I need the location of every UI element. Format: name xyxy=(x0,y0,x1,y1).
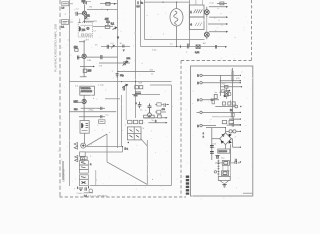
node driver box hatched 1 xyxy=(189,5,204,17)
transistor Q7 xyxy=(224,92,228,96)
node small box row a xyxy=(223,102,226,105)
svg-text:5n: 5n xyxy=(141,2,144,4)
wire switch grid inner horizontal xyxy=(127,132,141,134)
resistor R6 left of Q2 xyxy=(75,49,78,52)
node dot lead1 xyxy=(79,22,80,23)
node junction x220.3 y80.7 xyxy=(220,80,221,81)
head assembly box xyxy=(78,23,92,37)
svg-text:B: B xyxy=(197,100,199,102)
svg-text:+: + xyxy=(135,102,137,105)
node arrow y125.1 xyxy=(240,124,241,125)
svg-text:175: 175 xyxy=(99,65,103,67)
SWITCH COLUMN lower left xyxy=(79,157,94,198)
svg-text:1: 1 xyxy=(125,125,127,127)
svg-text:2: 2 xyxy=(186,52,188,54)
capacitor C23 polar pair xyxy=(210,146,214,148)
svg-text:a: a xyxy=(109,132,111,134)
wire vertical joining y146.6 and y152 xyxy=(122,147,124,152)
wire y111.7 xyxy=(69,111,116,113)
node tiny box row b xyxy=(85,34,87,36)
node junction y71.4 xyxy=(117,71,118,72)
node cluster dot xyxy=(167,104,168,105)
svg-text:470: 470 xyxy=(162,109,166,111)
wire Q1 base lead xyxy=(78,13,83,15)
wire box A leads xyxy=(215,162,234,164)
wire y24 xyxy=(208,23,226,25)
svg-text:100: 100 xyxy=(88,71,93,73)
svg-text:d: d xyxy=(152,179,153,181)
node arrow plug on bus x118 xyxy=(117,37,119,40)
svg-text:b: b xyxy=(93,98,95,100)
node arrow end y46.8 xyxy=(225,46,227,48)
wire y86.8 xyxy=(220,86,241,88)
wire right riser xyxy=(230,156,232,177)
svg-text:2,2: 2,2 xyxy=(137,6,141,8)
resistor R9 xyxy=(139,86,143,89)
resistor R14 xyxy=(157,103,161,106)
LEFT COMPONENT COLUMN x105-118 xyxy=(105,3,119,40)
node arrow y147.2 xyxy=(240,147,241,148)
node arrow y119.1 xyxy=(240,118,241,119)
node hatch lines 4 xyxy=(195,23,202,26)
node arrow end y122.7 xyxy=(166,122,168,124)
wire bus x135.5 xyxy=(135,0,137,118)
node arrow y17.1 xyxy=(226,16,228,18)
node tiny box row c xyxy=(89,34,91,36)
svg-text:1M: 1M xyxy=(82,1,85,3)
node Q5 marks xyxy=(205,11,208,14)
wire dashed border right panel left vertical xyxy=(180,61,182,197)
node marks near x187 y44-48 xyxy=(187,44,189,49)
svg-text:2k: 2k xyxy=(140,109,143,111)
svg-text:500: 500 xyxy=(85,19,89,21)
node bottom cluster extra marks xyxy=(78,186,89,189)
wire y80.7 xyxy=(220,80,240,82)
node J1 plug arrows xyxy=(74,143,77,150)
right panel solid border rectangle xyxy=(191,66,253,196)
wire top small line y3.4 xyxy=(217,2,227,4)
svg-text:25µ: 25µ xyxy=(120,75,124,77)
STAGE 1 (top transistor amp) xyxy=(76,0,94,37)
wire Q6 bottom lead xyxy=(206,37,208,39)
wire stage3 collector xyxy=(83,95,85,99)
svg-text:A 9: A 9 xyxy=(86,38,90,41)
node fuse circle 1 xyxy=(229,130,232,133)
wire bridge top lead xyxy=(225,128,227,134)
RECORD HEAD BOX 2 xyxy=(80,121,89,144)
node junction dot y81.7 xyxy=(121,81,122,82)
svg-text:B30C300: B30C300 xyxy=(219,151,228,153)
resistor R15 xyxy=(157,110,161,114)
node marks bottom right xyxy=(235,159,236,162)
svg-text:WIEDERG.: WIEDERG. xyxy=(81,88,92,90)
resistor R4 on y2 xyxy=(106,3,110,6)
node bottom marks xyxy=(84,192,93,194)
wire horizontal y46.8 long xyxy=(141,46,226,48)
wire horizontal y85.1 xyxy=(150,84,172,86)
STAGE 2 (second transistor amp) xyxy=(74,40,118,77)
node volume pot cluster xyxy=(122,84,128,87)
wire Q1 collector xyxy=(84,4,86,11)
node switch grid 2x2 xyxy=(127,127,141,140)
wire horizontal y2 left xyxy=(100,3,118,5)
svg-text:0,22: 0,22 xyxy=(195,52,200,54)
wire main panel left dashed border xyxy=(59,0,61,197)
capacitor C20 xyxy=(211,99,214,100)
resistor R20 vertical on row1 xyxy=(232,72,234,81)
wire bus x121.5 lower xyxy=(121,95,123,147)
wire vertical x147 xyxy=(146,140,148,185)
svg-text:2SB: 2SB xyxy=(87,60,92,62)
capacitor C3 base Q2 xyxy=(78,56,79,60)
node cluster above bridge xyxy=(222,121,226,124)
transistor Q5 xyxy=(204,10,209,15)
wire Q1 emitter down xyxy=(83,15,94,22)
switch bank box3 xyxy=(79,169,88,173)
connector P4 xyxy=(200,111,202,113)
MID COLUMN components xyxy=(99,45,168,151)
resistor R10 xyxy=(133,120,137,123)
wire y116.8 xyxy=(79,116,105,118)
node arrow y31.7 xyxy=(226,31,228,33)
capacitor C5 xyxy=(101,107,102,110)
node arrow y80.7 xyxy=(240,80,241,81)
connector P5 xyxy=(200,124,202,126)
svg-text:10µ: 10µ xyxy=(100,85,104,87)
node pot circle on y106.5 xyxy=(235,105,238,108)
wire main panel bottom dashed border xyxy=(60,196,187,198)
node left ladder ticks xyxy=(218,161,220,174)
svg-text:B: B xyxy=(197,76,199,78)
node box B inner dark xyxy=(223,172,227,175)
svg-text:a: a xyxy=(218,8,220,10)
wire A-B links xyxy=(223,165,228,171)
node junction dot y2 xyxy=(107,9,108,10)
wire collector top xyxy=(79,40,85,54)
node J2 plug arrows xyxy=(75,156,78,162)
node equalizer label box xyxy=(80,86,95,95)
node arrow y24 xyxy=(226,23,228,25)
wire horizontal y39.2 to Q6 xyxy=(145,39,205,41)
svg-text:5µ: 5µ xyxy=(215,92,218,94)
wire Q5 out y6.8 xyxy=(207,7,226,10)
resistor R8 xyxy=(135,86,139,89)
wire Q2 out right xyxy=(86,56,117,58)
capacitor C25 top marks xyxy=(217,156,219,159)
svg-text:2,5 x 0,1 GRUNDIG: 2,5 x 0,1 GRUNDIG xyxy=(88,195,108,197)
node dark mark box5 xyxy=(82,182,86,184)
svg-text:2: 2 xyxy=(90,156,92,158)
node lower box B xyxy=(222,171,229,176)
wire y76.8 xyxy=(80,76,87,78)
wire Q2 emitter xyxy=(80,59,93,77)
resistor R24 left vertical2 xyxy=(212,99,215,104)
resistor R21 on y86.8 xyxy=(224,86,228,89)
svg-text:3k: 3k xyxy=(120,43,123,45)
svg-text:c: c xyxy=(71,55,72,57)
wire horizontal y26.5 xyxy=(93,26,113,28)
resistor R13 on y3.4 xyxy=(220,2,224,5)
node switch label box xyxy=(80,157,87,160)
wire Q3 emitter out xyxy=(81,104,105,121)
svg-text:L: L xyxy=(163,34,165,36)
resistor R5 xyxy=(105,25,110,28)
svg-text:S: S xyxy=(143,128,145,130)
node J1 inner mark xyxy=(82,144,85,147)
wire cluster leads xyxy=(155,104,169,112)
wire bridge right lead xyxy=(231,139,233,148)
JACKS lower left xyxy=(74,143,87,162)
svg-text:AC: AC xyxy=(203,42,206,45)
wire bus x232.6 upper xyxy=(232,68,234,117)
svg-text:1k: 1k xyxy=(151,73,154,75)
capacitor C15 xyxy=(164,103,165,107)
ground G1 xyxy=(216,156,220,159)
transistor Q2 xyxy=(82,54,86,58)
diode D2 dark xyxy=(228,134,231,137)
svg-text:5µ: 5µ xyxy=(95,21,98,23)
resistor R7 emitter xyxy=(83,69,87,72)
svg-text:6k8: 6k8 xyxy=(139,83,143,85)
node fuse circle 2 xyxy=(233,130,236,133)
node X in box xyxy=(196,45,200,49)
node Sa mark xyxy=(130,130,140,132)
wire P3 row xyxy=(202,99,219,101)
svg-text:b: b xyxy=(230,100,232,102)
resistor R1 above Q1 xyxy=(84,0,87,4)
transistor Q3 xyxy=(82,99,86,103)
resistor R10b xyxy=(139,120,142,123)
capacitor C8 xyxy=(123,87,124,91)
wire y127.6 xyxy=(206,128,226,160)
wire P4 row xyxy=(202,111,240,113)
node junction dot y46.8 x180 xyxy=(180,46,181,47)
capacitor C12 on y46.8 xyxy=(107,45,108,49)
wire y116.8 right panel xyxy=(212,116,233,118)
node arrow y106.5 xyxy=(240,106,241,107)
node left ladder line xyxy=(217,160,219,177)
node head core dark blob xyxy=(79,26,81,31)
node component on y46.8 box with X xyxy=(196,45,200,49)
resistor R12 xyxy=(150,115,155,118)
wire vertical x230.7 low xyxy=(230,144,232,162)
node arrow P4 xyxy=(240,112,241,113)
capacitor C2 xyxy=(106,19,110,26)
diode D3 dark xyxy=(221,141,224,144)
svg-text:470: 470 xyxy=(236,78,240,80)
node dot at end y146.6 xyxy=(122,146,123,147)
wire ellipse bottom lead xyxy=(176,26,178,47)
node small box under J1 xyxy=(80,152,86,156)
wire P5 row xyxy=(202,125,216,127)
resistor R23 above bridge xyxy=(229,121,233,124)
node small box row c xyxy=(232,102,235,105)
node dot below grid xyxy=(128,142,129,143)
wire switch output vertical x95.8 xyxy=(95,170,97,186)
wire vertical x220.3 xyxy=(220,75,222,96)
LONG BUS WIRES xyxy=(70,0,226,186)
node arrow row1 xyxy=(240,75,241,76)
node trimmer arrow xyxy=(113,27,117,30)
wire Q6 out y31.7 xyxy=(207,31,226,34)
node lamp filament zigzag xyxy=(174,11,178,25)
node driver box hatched 4 xyxy=(189,17,204,30)
svg-text:12: 12 xyxy=(170,44,173,46)
capacitor C21 y119 xyxy=(229,117,240,121)
node junction y127.6 xyxy=(225,127,226,128)
wire switch line y122.7 xyxy=(148,122,165,124)
node small box row b xyxy=(228,102,231,105)
node arrow y124.7 xyxy=(240,124,241,125)
switch bank box5 xyxy=(79,179,88,185)
svg-text:4: 4 xyxy=(190,22,192,26)
capacitor C4 right xyxy=(101,55,102,59)
node electrolytic circle xyxy=(148,113,152,117)
svg-text:1: 1 xyxy=(65,14,67,16)
svg-text:2,5x0,1: 2,5x0,1 xyxy=(77,193,85,195)
wire Q7 small leads xyxy=(219,89,226,100)
RIGHT TOP TRANSISTORS xyxy=(180,2,228,54)
node edge connector strip xyxy=(186,176,189,195)
wire bus x118 xyxy=(117,0,119,148)
node arrow y6.8 xyxy=(226,6,228,8)
node lower box A xyxy=(222,161,229,166)
wire horizontal y146.6 from jack xyxy=(87,146,123,148)
wire P1 row xyxy=(202,74,239,76)
diode D4 dark xyxy=(229,140,232,143)
svg-text:1: 1 xyxy=(190,10,192,14)
wire dashed border step horizontal xyxy=(181,60,252,62)
node second left connector box xyxy=(62,20,69,25)
svg-text:2,2: 2,2 xyxy=(76,8,80,10)
node row of boxes y120 xyxy=(128,120,132,123)
capacitor C16 top cluster xyxy=(137,1,144,8)
svg-text:8k2: 8k2 xyxy=(134,95,138,97)
node comp on y116.8 xyxy=(231,113,234,117)
node rectifier label box xyxy=(218,149,230,153)
node arrowhead below C13 xyxy=(123,50,125,52)
wire y125.1 xyxy=(227,124,240,126)
wire horizontal y185.6 xyxy=(90,185,172,187)
capacitor C24 polar pair xyxy=(210,152,214,154)
capacitor C14 below y71.4 xyxy=(116,74,119,78)
svg-text:a: a xyxy=(90,164,92,166)
capacitor C9 plus xyxy=(138,102,142,108)
node Q1 emitter junction xyxy=(84,21,85,22)
svg-text:e: e xyxy=(96,180,98,182)
svg-text:0,5: 0,5 xyxy=(75,86,79,88)
node junction dot2 y81.7 xyxy=(135,81,136,82)
node left small circle xyxy=(214,171,216,173)
wire bus x140 turning right at y47 xyxy=(140,0,142,47)
wire lower-left bracket xyxy=(62,161,64,180)
node Q7 aux box a xyxy=(222,90,225,93)
node tiny box row a xyxy=(81,34,83,36)
ground G2 below funnel xyxy=(222,183,226,187)
wire horizontal y2 ellipse top xyxy=(145,1,190,3)
svg-text:50µ: 50µ xyxy=(221,157,225,159)
node bottom circle xyxy=(89,189,93,193)
capacitor C11 bottom xyxy=(85,187,86,191)
wire diagonal D1 from jack up right xyxy=(87,134,108,146)
wire diagonal D3 short xyxy=(141,139,148,147)
resistor R11 xyxy=(144,115,149,118)
node label specks layer xyxy=(65,2,240,181)
node arrow on y66.5 xyxy=(93,66,95,68)
svg-text:220: 220 xyxy=(213,143,217,145)
svg-text:B: B xyxy=(197,83,199,85)
capacitor C22 y124.7 xyxy=(229,123,240,127)
svg-text:1: 1 xyxy=(203,133,205,135)
node arrow y86.8 xyxy=(241,86,242,87)
node head 2 bottom mark xyxy=(82,130,88,132)
node top-left connector box xyxy=(61,2,73,29)
wire horizontal y98.8 xyxy=(105,98,120,100)
wire Q3 base xyxy=(78,101,82,103)
wire y63 left part xyxy=(99,62,118,64)
svg-text:LS: LS xyxy=(62,8,65,10)
capacitor C13 right of bus xyxy=(123,45,124,48)
node Q7 cross marks xyxy=(224,90,230,97)
connector P3 xyxy=(200,99,202,101)
svg-text:B: B xyxy=(197,126,199,128)
node hatch lines 1 xyxy=(194,9,203,13)
node junction dot top wire xyxy=(162,1,163,2)
wire horizontal y94.6 xyxy=(132,94,160,96)
node trimmer arrow C7 xyxy=(123,61,129,66)
svg-text:1: 1 xyxy=(91,144,93,146)
svg-text:51: 51 xyxy=(94,31,97,33)
wire Q5 out y17.1 xyxy=(207,15,226,18)
RIGHT PANEL (power supply board) xyxy=(197,72,243,139)
svg-text:0,1: 0,1 xyxy=(61,27,65,29)
node junction dot on y46.8 xyxy=(176,46,177,47)
transistor Q6 xyxy=(204,32,209,37)
rectifier bridge D1-D4 diamond xyxy=(220,133,232,145)
node small marks x211-219 y45 xyxy=(215,45,216,49)
node Q7 aux box b xyxy=(228,93,231,96)
node P4 tail xyxy=(197,111,200,113)
wire bus x69 xyxy=(69,0,71,186)
wire bridge bottom lead xyxy=(225,144,227,149)
capacitor C1 at Q1 base xyxy=(76,12,77,16)
node funnel trapezoid xyxy=(220,180,229,183)
svg-text:6V: 6V xyxy=(227,171,230,173)
node mark in small box xyxy=(100,121,104,123)
svg-text:PLAYBACK/RECORD AMPL.25B: PLAYBACK/RECORD AMPL.25B xyxy=(53,24,57,72)
STAGE 3 (mic/record amp) xyxy=(69,86,116,120)
wire bridge left lead xyxy=(212,138,220,140)
svg-text:30: 30 xyxy=(95,45,98,47)
node dot lead2 xyxy=(84,22,85,23)
wire vertical x107 xyxy=(106,134,108,162)
node arrow right y162 xyxy=(240,161,241,162)
OUTPUT TUBE/LAMP ELLIPSE xyxy=(162,1,188,48)
node marks right of box A xyxy=(235,161,240,164)
wire J1 to right xyxy=(86,146,87,148)
node head circle cross xyxy=(87,28,89,30)
switch bank box2 xyxy=(79,165,88,169)
svg-text:10k: 10k xyxy=(127,58,131,60)
wire y106.5 xyxy=(215,106,235,108)
wire bus x171 with corner at y85 and y185.5 xyxy=(171,85,173,186)
svg-text:2: 2 xyxy=(235,137,237,139)
node arrow end y117.8 xyxy=(166,117,168,119)
wire inner row line xyxy=(81,25,93,27)
wire y193 short xyxy=(243,192,252,194)
node arrow row2 xyxy=(240,82,241,83)
svg-text:0,1: 0,1 xyxy=(106,114,110,116)
